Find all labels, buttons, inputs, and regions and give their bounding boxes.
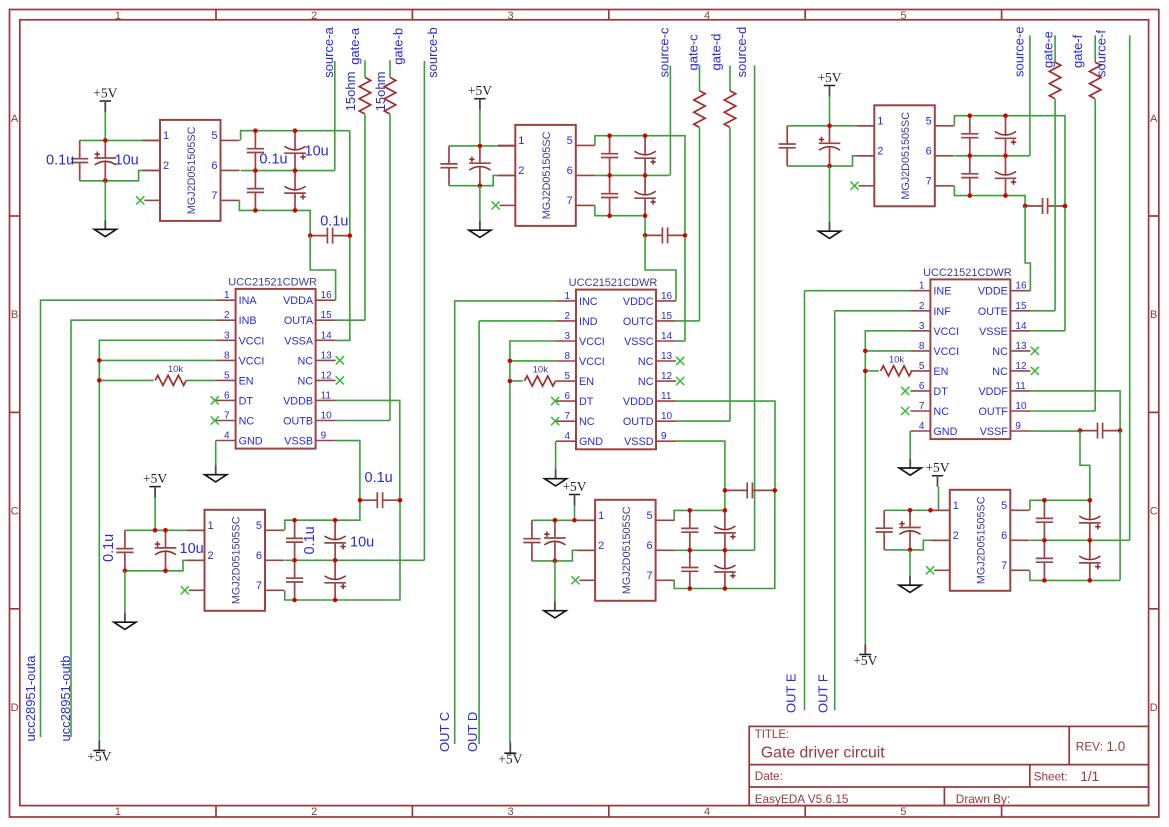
svg-text:7: 7	[567, 195, 573, 207]
svg-text:14: 14	[321, 330, 333, 341]
svg-text:+5V: +5V	[87, 749, 111, 764]
svg-text:source-a: source-a	[321, 26, 336, 77]
svg-text:0.1u: 0.1u	[259, 151, 287, 167]
svg-text:6: 6	[926, 145, 932, 157]
svg-text:INE: INE	[933, 286, 951, 298]
svg-text:VDDB: VDDB	[283, 395, 313, 407]
svg-text:UCC21521CDWR: UCC21521CDWR	[228, 276, 317, 288]
svg-text:NC: NC	[992, 346, 1008, 358]
svg-text:EN: EN	[933, 366, 948, 378]
svg-text:DT: DT	[579, 396, 594, 408]
svg-text:1/1: 1/1	[1080, 769, 1099, 784]
svg-text:0.1u: 0.1u	[302, 526, 318, 554]
svg-text:MGJ2D051505SC: MGJ2D051505SC	[621, 506, 633, 594]
svg-text:1: 1	[208, 520, 214, 532]
svg-text:DT: DT	[239, 395, 254, 407]
svg-text:VCCI: VCCI	[579, 356, 605, 368]
svg-text:OUTD: OUTD	[623, 416, 654, 428]
svg-text:12: 12	[321, 370, 333, 381]
svg-text:2: 2	[208, 550, 214, 562]
svg-text:OUT F: OUT F	[816, 674, 831, 713]
svg-text:source-c: source-c	[656, 27, 671, 77]
svg-text:10: 10	[1015, 401, 1027, 412]
svg-text:2: 2	[518, 165, 524, 177]
svg-text:4: 4	[564, 431, 570, 442]
svg-text:VDDA: VDDA	[283, 295, 314, 307]
svg-text:MGJ2D051505SC: MGJ2D051505SC	[900, 112, 912, 200]
svg-text:6: 6	[567, 165, 573, 177]
svg-text:VCCI: VCCI	[933, 346, 959, 358]
svg-text:+5V: +5V	[562, 479, 586, 494]
svg-text:OUT C: OUT C	[437, 712, 452, 752]
svg-text:EN: EN	[239, 375, 254, 387]
svg-text:7: 7	[1001, 560, 1007, 572]
svg-text:+5V: +5V	[93, 86, 117, 101]
svg-text:gate-b: gate-b	[391, 28, 406, 65]
svg-text:7: 7	[256, 580, 262, 592]
svg-text:VSSC: VSSC	[624, 336, 654, 348]
svg-text:Sheet:: Sheet:	[1034, 769, 1068, 783]
svg-text:gate-d: gate-d	[709, 34, 724, 71]
svg-text:INB: INB	[239, 315, 257, 327]
svg-text:VSSA: VSSA	[284, 335, 314, 347]
svg-text:UCC21521CDWR: UCC21521CDWR	[923, 267, 1012, 279]
svg-text:0.1u: 0.1u	[101, 534, 117, 562]
svg-text:5: 5	[567, 135, 573, 147]
svg-text:MGJ2D051505SC: MGJ2D051505SC	[230, 516, 242, 604]
svg-text:15: 15	[1015, 301, 1027, 312]
svg-text:6: 6	[256, 550, 262, 562]
svg-text:C: C	[11, 506, 19, 518]
svg-text:OUT E: OUT E	[784, 673, 799, 713]
svg-text:OUTA: OUTA	[284, 315, 314, 327]
svg-text:VCCI: VCCI	[933, 326, 959, 338]
svg-text:2: 2	[311, 10, 317, 22]
svg-text:+5V: +5V	[498, 752, 522, 767]
svg-text:8: 8	[564, 351, 570, 362]
svg-text:5: 5	[1001, 500, 1007, 512]
svg-text:B: B	[11, 309, 18, 321]
svg-text:2: 2	[224, 310, 230, 321]
svg-text:NC: NC	[579, 416, 595, 428]
svg-text:3: 3	[508, 10, 514, 22]
svg-text:NC: NC	[992, 366, 1008, 378]
svg-text:14: 14	[1015, 321, 1027, 332]
svg-text:10k: 10k	[889, 354, 905, 365]
svg-text:+5V: +5V	[143, 471, 167, 486]
svg-text:VCCI: VCCI	[239, 335, 265, 347]
svg-text:6: 6	[1001, 530, 1007, 542]
svg-text:2: 2	[564, 311, 570, 322]
svg-text:15: 15	[661, 311, 673, 322]
svg-text:OUTF: OUTF	[979, 406, 1009, 418]
svg-text:2: 2	[877, 145, 883, 157]
svg-text:MGJ2D051505SC: MGJ2D051505SC	[186, 126, 198, 214]
svg-text:9: 9	[321, 431, 327, 442]
svg-text:6: 6	[919, 381, 925, 392]
svg-text:13: 13	[1015, 341, 1027, 352]
svg-text:6: 6	[564, 391, 570, 402]
svg-text:15: 15	[321, 310, 333, 321]
svg-text:VSSB: VSSB	[284, 436, 313, 448]
svg-text:3: 3	[564, 331, 570, 342]
svg-text:ucc28951-outb: ucc28951-outb	[58, 655, 73, 741]
svg-text:16: 16	[321, 290, 333, 301]
svg-text:INA: INA	[239, 295, 258, 307]
svg-text:A: A	[11, 113, 19, 125]
svg-text:1: 1	[115, 806, 121, 818]
svg-text:10: 10	[661, 411, 673, 422]
svg-text:D: D	[1150, 702, 1158, 714]
svg-text:7: 7	[211, 190, 217, 202]
svg-text:15ohm: 15ohm	[373, 72, 388, 112]
svg-text:3: 3	[224, 330, 230, 341]
svg-text:10k: 10k	[533, 365, 549, 376]
svg-text:NC: NC	[638, 356, 654, 368]
svg-text:10u: 10u	[305, 144, 329, 160]
svg-text:5: 5	[900, 806, 906, 818]
svg-text:GND: GND	[239, 436, 263, 448]
svg-text:GND: GND	[933, 426, 957, 438]
svg-text:6: 6	[646, 540, 652, 552]
svg-text:1.0: 1.0	[1107, 739, 1126, 754]
svg-text:1: 1	[953, 500, 959, 512]
svg-text:B: B	[1150, 309, 1157, 321]
svg-text:13: 13	[321, 350, 333, 361]
svg-text:4: 4	[704, 10, 710, 22]
svg-text:1: 1	[877, 115, 883, 127]
svg-text:OUTB: OUTB	[283, 416, 313, 428]
svg-text:4: 4	[224, 431, 230, 442]
svg-text:8: 8	[224, 350, 230, 361]
svg-text:0.1u: 0.1u	[320, 213, 348, 229]
svg-text:C: C	[1150, 506, 1158, 518]
svg-text:D: D	[11, 702, 19, 714]
svg-text:7: 7	[564, 411, 570, 422]
svg-text:gate-c: gate-c	[686, 34, 701, 71]
svg-text:VDDE: VDDE	[978, 286, 1008, 298]
svg-text:5: 5	[646, 510, 652, 522]
svg-text:MGJ2D051505SC: MGJ2D051505SC	[976, 496, 988, 584]
svg-text:OUTE: OUTE	[978, 306, 1008, 318]
svg-text:NC: NC	[239, 416, 255, 428]
svg-text:1: 1	[163, 130, 169, 142]
svg-text:VCCI: VCCI	[579, 336, 605, 348]
svg-text:5: 5	[900, 10, 906, 22]
svg-text:16: 16	[661, 291, 673, 302]
svg-text:4: 4	[919, 421, 925, 432]
svg-text:12: 12	[1015, 361, 1027, 372]
svg-text:7: 7	[224, 411, 230, 422]
svg-text:11: 11	[321, 390, 332, 401]
svg-text:10: 10	[321, 411, 333, 422]
svg-text:EN: EN	[579, 376, 594, 388]
svg-text:UCC21521CDWR: UCC21521CDWR	[569, 277, 658, 289]
svg-text:Date:: Date:	[755, 769, 783, 783]
svg-text:MGJ2D051505SC: MGJ2D051505SC	[541, 131, 553, 219]
svg-text:source-e: source-e	[1012, 26, 1027, 77]
svg-text:1: 1	[564, 291, 570, 302]
svg-text:5: 5	[224, 370, 230, 381]
svg-text:VDDC: VDDC	[623, 296, 654, 308]
svg-text:VSSD: VSSD	[624, 436, 654, 448]
svg-text:2: 2	[953, 530, 959, 542]
svg-text:4: 4	[704, 806, 710, 818]
svg-text:0.1u: 0.1u	[365, 470, 393, 486]
svg-text:GND: GND	[579, 436, 603, 448]
svg-text:VSSE: VSSE	[979, 326, 1008, 338]
svg-text:INC: INC	[579, 296, 598, 308]
svg-text:EasyEDA V5.6.15: EasyEDA V5.6.15	[755, 792, 849, 806]
svg-text:7: 7	[919, 401, 925, 412]
svg-text:7: 7	[646, 570, 652, 582]
svg-text:10k: 10k	[168, 364, 184, 375]
svg-text:gate-e: gate-e	[1041, 31, 1056, 68]
svg-text:TITLE:: TITLE:	[755, 729, 790, 741]
svg-text:6: 6	[224, 390, 230, 401]
svg-text:0.1u: 0.1u	[46, 152, 74, 168]
svg-text:1: 1	[115, 10, 121, 22]
svg-text:+5V: +5V	[853, 653, 877, 668]
svg-text:NC: NC	[297, 375, 313, 387]
svg-text:2: 2	[919, 301, 925, 312]
svg-text:A: A	[1150, 113, 1158, 125]
svg-text:VSSF: VSSF	[980, 426, 1009, 438]
svg-text:+5V: +5V	[925, 460, 949, 475]
svg-text:5: 5	[211, 130, 217, 142]
svg-text:source-b: source-b	[425, 27, 440, 78]
svg-text:ucc28951-outa: ucc28951-outa	[23, 655, 38, 742]
svg-text:1: 1	[919, 281, 925, 292]
svg-text:10u: 10u	[350, 535, 374, 551]
svg-text:IND: IND	[579, 316, 598, 328]
svg-text:8: 8	[919, 341, 925, 352]
svg-text:15ohm: 15ohm	[343, 72, 358, 112]
svg-text:5: 5	[256, 520, 262, 532]
svg-text:NC: NC	[297, 355, 313, 367]
svg-text:9: 9	[1015, 421, 1021, 432]
svg-text:Gate driver circuit: Gate driver circuit	[761, 744, 885, 761]
svg-text:+5V: +5V	[468, 83, 492, 98]
svg-text:DT: DT	[933, 386, 948, 398]
svg-text:OUT D: OUT D	[465, 712, 480, 752]
svg-text:gate-a: gate-a	[347, 27, 362, 65]
svg-text:7: 7	[926, 175, 932, 187]
svg-text:6: 6	[211, 160, 217, 172]
svg-text:3: 3	[919, 321, 925, 332]
svg-text:10u: 10u	[115, 152, 139, 168]
svg-text:INF: INF	[933, 306, 951, 318]
svg-text:NC: NC	[638, 376, 654, 388]
svg-text:VCCI: VCCI	[239, 355, 265, 367]
svg-text:REV:: REV:	[1076, 740, 1103, 754]
svg-text:source-f: source-f	[1093, 30, 1108, 77]
svg-text:1: 1	[518, 135, 524, 147]
svg-text:10u: 10u	[180, 541, 204, 557]
svg-text:11: 11	[1015, 381, 1026, 392]
svg-text:source-d: source-d	[734, 27, 749, 78]
svg-text:13: 13	[661, 351, 673, 362]
svg-text:2: 2	[311, 806, 317, 818]
svg-text:2: 2	[163, 160, 169, 172]
svg-text:16: 16	[1015, 281, 1027, 292]
svg-text:3: 3	[508, 806, 514, 818]
svg-text:9: 9	[661, 431, 667, 442]
svg-text:5: 5	[564, 371, 570, 382]
svg-text:Drawn By:: Drawn By:	[956, 792, 1010, 806]
svg-text:2: 2	[598, 540, 604, 552]
svg-text:11: 11	[661, 391, 672, 402]
svg-text:12: 12	[661, 371, 673, 382]
svg-text:+5V: +5V	[817, 70, 841, 85]
svg-text:OUTC: OUTC	[623, 316, 654, 328]
svg-text:5: 5	[919, 361, 925, 372]
svg-text:gate-f: gate-f	[1070, 34, 1085, 68]
svg-text:1: 1	[224, 290, 230, 301]
svg-text:VDDD: VDDD	[623, 396, 654, 408]
svg-text:5: 5	[926, 115, 932, 127]
svg-text:1: 1	[598, 510, 604, 522]
svg-text:14: 14	[661, 331, 673, 342]
svg-text:NC: NC	[933, 406, 949, 418]
svg-text:VDDF: VDDF	[978, 386, 1008, 398]
